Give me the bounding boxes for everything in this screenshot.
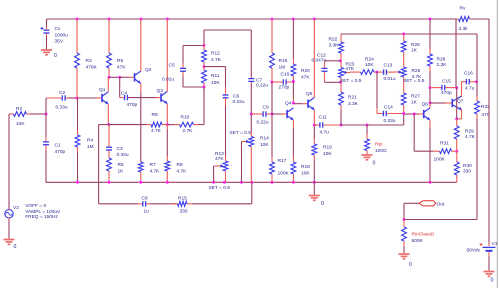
svg-text:47K: 47K <box>346 66 355 72</box>
svg-text:SET = 0.5: SET = 0.5 <box>230 130 252 136</box>
svg-text:SET = 0.5: SET = 0.5 <box>209 185 231 191</box>
svg-text:R31: R31 <box>440 141 449 147</box>
wire bypass jog from node D <box>99 124 109 126</box>
svg-text:2.2K: 2.2K <box>437 62 448 68</box>
wire node S to Q6 base <box>404 113 420 115</box>
svg-text:10K: 10K <box>260 142 269 148</box>
wire node D to R9 <box>109 124 146 126</box>
node node AB (C15 right) <box>455 86 458 89</box>
svg-text:0.33u: 0.33u <box>384 118 396 124</box>
svg-text:R22: R22 <box>329 37 338 43</box>
resistor R2 <box>9 113 14 115</box>
svg-text:C6: C6 <box>233 94 239 100</box>
svg-text:RinClassD: RinClassD <box>412 232 435 238</box>
svg-text:0: 0 <box>54 53 57 59</box>
svg-text:1000u: 1000u <box>55 33 69 39</box>
svg-text:100G: 100G <box>375 148 387 154</box>
wire Q7 collector up <box>461 82 463 97</box>
node node M (C10 right) <box>292 80 295 83</box>
wire Q5 collector up <box>313 19 315 98</box>
wire R2 to node A <box>30 113 46 115</box>
node node Z (Q7 base) <box>429 102 432 105</box>
svg-text:35V: 35V <box>55 39 64 45</box>
transistor Q3 <box>156 97 162 99</box>
resistor R27 <box>403 91 405 93</box>
svg-text:C4: C4 <box>121 91 127 97</box>
svg-text:R17: R17 <box>278 158 287 164</box>
wire Q2 collector up <box>140 19 142 71</box>
svg-text:330: 330 <box>463 169 471 175</box>
svg-text:Rip: Rip <box>375 142 383 148</box>
node node I (R12/R11/C6) <box>203 65 206 68</box>
wire Q3 collector up <box>166 19 168 91</box>
wire C12 top drop <box>324 61 326 66</box>
node node L (C10 left) <box>271 81 274 84</box>
resistor R17 <box>271 174 273 182</box>
polarity + mark of Cv <box>41 27 44 29</box>
svg-text:R6: R6 <box>118 162 124 168</box>
wire node C to C4 node <box>109 76 120 78</box>
node node B (R3 bottom/Q1 base) <box>76 97 79 100</box>
node junction rail-R3 <box>76 18 79 21</box>
svg-text:4.7K: 4.7K <box>151 128 162 134</box>
svg-text:0.01u: 0.01u <box>162 77 174 83</box>
resistor R18 <box>292 174 294 182</box>
node node S (Q6 base) <box>402 112 405 115</box>
wire wiper tail to R24 <box>350 71 361 73</box>
ground 0 below Rip <box>362 154 373 156</box>
svg-text:47K: 47K <box>215 156 224 162</box>
node junction rail-Q5 collector <box>313 18 316 21</box>
capacitor C1 <box>45 137 47 142</box>
resistor Rv <box>459 17 470 22</box>
svg-text:Q4: Q4 <box>285 101 292 107</box>
node node E (C4 branch) <box>118 76 121 79</box>
transistor Q4 <box>282 113 288 115</box>
svg-text:R12: R12 <box>211 51 220 57</box>
svg-text:Q3: Q3 <box>157 88 164 94</box>
node junction bus-R8 <box>166 181 169 184</box>
capacitor C12 <box>324 66 326 69</box>
capacitor C10 <box>272 81 283 83</box>
wire feedback top <box>341 33 477 35</box>
svg-text:10K: 10K <box>301 171 310 177</box>
wire R15 to riser <box>192 203 252 205</box>
wire Q6 emitter down <box>429 120 431 128</box>
resistor R30 <box>456 151 458 162</box>
capacitor C2 <box>46 97 62 99</box>
svg-text:SET = 0.5: SET = 0.5 <box>340 78 362 84</box>
potentiometer R25 <box>403 65 405 67</box>
svg-text:10K: 10K <box>365 62 374 68</box>
resistor Rip <box>366 134 368 139</box>
svg-text:470p: 470p <box>127 102 138 108</box>
svg-text:R21: R21 <box>348 95 357 101</box>
resistor R28 <box>429 49 431 54</box>
capacitor C16 <box>462 81 467 83</box>
node node T (R23 bottom/C12) <box>339 81 342 84</box>
wire C12 top wire <box>325 60 341 62</box>
svg-text:R3: R3 <box>86 58 92 64</box>
wire ground bus <box>46 181 457 183</box>
wire bypass drop (crosses bus) <box>98 125 100 204</box>
node node X (R31 branch) <box>413 113 416 116</box>
wire Q2 emitter down <box>140 84 142 93</box>
wire node X drop <box>413 114 415 151</box>
transistor Q2 <box>129 76 135 78</box>
wire C8 row left <box>99 203 138 205</box>
svg-text:1u: 1u <box>144 209 150 215</box>
wire node K to Q4 base <box>272 113 283 115</box>
resistor R3 <box>76 19 78 53</box>
node node N (Q4 collector) <box>292 102 295 105</box>
svg-text:R9: R9 <box>152 112 158 118</box>
resistor R15 <box>173 203 178 205</box>
wire node E to Q2 base <box>120 76 129 78</box>
wire right edge drop <box>488 19 490 243</box>
transistor Q7 <box>445 102 453 104</box>
svg-text:270p: 270p <box>279 85 290 91</box>
svg-text:2.7K: 2.7K <box>183 128 194 134</box>
resistor R5 <box>108 19 110 53</box>
svg-text:0: 0 <box>14 244 17 250</box>
svg-text:500K: 500K <box>412 238 424 244</box>
resistor R19 <box>313 155 315 160</box>
wire top rail right of Rv <box>471 18 489 20</box>
wire C7 to node J <box>250 84 252 114</box>
capacitor C6 <box>225 92 227 95</box>
svg-text:0.22u: 0.22u <box>233 99 245 105</box>
wire node R to corner <box>367 124 404 126</box>
wire Cv drop from rail corner <box>46 19 48 27</box>
node node K (Q4 base) <box>271 113 274 116</box>
node junction bus-gnd <box>313 181 316 184</box>
wire out stub to tag <box>404 202 419 204</box>
svg-text:470p: 470p <box>55 149 66 155</box>
resistor R24 <box>374 71 377 73</box>
svg-text:C5: C5 <box>169 63 175 69</box>
resistor R20 <box>292 59 294 64</box>
wire node I to C6 column <box>204 66 226 68</box>
wire Q5 emitter down <box>313 110 315 125</box>
svg-text:4.7K: 4.7K <box>211 57 222 63</box>
wire C2 to R3 node <box>69 97 78 99</box>
wire node A up <box>45 98 47 114</box>
wire node F down to R8 <box>166 125 168 130</box>
wire C5 bottom to node H <box>183 86 204 88</box>
transistor Q1 <box>97 97 103 99</box>
svg-text:10K: 10K <box>211 80 220 86</box>
svg-text:R2: R2 <box>16 106 22 112</box>
wire rail drop right <box>455 19 457 88</box>
wire node M down to Q4 collector <box>292 81 294 98</box>
source V2 <box>5 210 13 218</box>
wire Cv to ground <box>46 36 48 49</box>
svg-text:0: 0 <box>491 278 494 284</box>
svg-text:1M: 1M <box>279 65 286 71</box>
node node H (R11 bottom/C5) <box>203 86 206 89</box>
svg-text:Q5: Q5 <box>306 91 313 97</box>
resistor R26 <box>403 34 405 41</box>
wire 456 column mid <box>456 88 458 119</box>
resistor RinClassD <box>403 220 405 228</box>
svg-text:0: 0 <box>373 161 376 167</box>
node junction rail-Q2 collector <box>140 18 143 21</box>
svg-text:R18: R18 <box>301 164 310 170</box>
svg-text:3.3k: 3.3k <box>459 26 469 32</box>
svg-text:C10: C10 <box>281 72 290 78</box>
svg-text:4.7K: 4.7K <box>150 169 161 175</box>
svg-text:0.01u: 0.01u <box>384 76 396 82</box>
svg-text:C13: C13 <box>384 63 393 69</box>
wire C5 top wire <box>183 45 204 47</box>
wire feedback drop <box>476 34 478 82</box>
node node U (R22 bottom/C12 top) <box>339 59 342 62</box>
svg-text:4.7K: 4.7K <box>465 134 476 140</box>
transistor Q6 <box>418 113 424 115</box>
svg-text:R4: R4 <box>87 138 93 144</box>
resistor R11 <box>203 67 205 70</box>
wire V2 to R2 riser <box>8 114 10 210</box>
wire node L down to node K <box>271 82 273 114</box>
svg-text:R5: R5 <box>117 58 123 64</box>
wire node Q to Rip node <box>341 124 367 126</box>
node junction rail-R16 <box>271 18 274 21</box>
wire inner box top <box>204 29 251 31</box>
node junction bus-R14 wiper <box>240 181 243 184</box>
node node AC (Q7 emitter) <box>455 117 458 120</box>
capacitor Cv <box>46 27 48 30</box>
wire top supply rail <box>47 18 457 20</box>
capacitor C4 <box>120 97 125 99</box>
node junction bus-R7 <box>139 181 142 184</box>
node junction bus-R13 wiper <box>212 181 215 184</box>
node node C (Q1 collector/R5) <box>108 76 111 79</box>
svg-text:C3: C3 <box>117 146 123 152</box>
wire C6 to R13 top <box>225 101 227 106</box>
capacitor C11 <box>314 124 320 126</box>
wire C4 branch drop <box>119 77 121 97</box>
node node D (Q1 emitter) <box>108 123 111 126</box>
svg-text:C14: C14 <box>384 105 393 111</box>
svg-text:47K: 47K <box>301 75 310 81</box>
resistor R8 <box>166 171 168 182</box>
svg-text:Q6: Q6 <box>422 102 429 108</box>
ground 0 below RinClassD <box>399 253 410 255</box>
wire Q1 emitter down <box>107 104 109 124</box>
svg-text:10K: 10K <box>323 151 332 157</box>
wire R14 wiper to bus <box>241 142 243 183</box>
node junction bus-R13 <box>223 181 226 184</box>
wire node N to Q5 base <box>293 103 302 105</box>
node junction bus-Q6 emitter <box>429 181 432 184</box>
svg-text:Cv: Cv <box>55 26 61 32</box>
wire out riser <box>403 203 405 219</box>
svg-text:4.7K: 4.7K <box>177 169 188 175</box>
wire node K down to R17 <box>271 114 273 157</box>
svg-text:R15: R15 <box>178 196 187 202</box>
potentiometer R13 <box>225 171 227 182</box>
svg-text:0.22u: 0.22u <box>257 120 269 126</box>
wire C7 column upper <box>250 30 252 77</box>
wire C14 left riser <box>376 72 378 108</box>
node junction bus-R17 <box>271 181 274 184</box>
svg-text:C15: C15 <box>442 79 451 85</box>
wire Q1 collector up <box>107 77 109 92</box>
node node J (C7/C9/R14) <box>250 113 253 116</box>
node junction bus-R4 <box>76 181 79 184</box>
wire battery to ground <box>488 252 490 256</box>
wire Q7 emitter jog <box>457 118 462 120</box>
svg-text:FREQ = 150Hz: FREQ = 150Hz <box>25 214 58 220</box>
svg-text:VOFF = 0: VOFF = 0 <box>25 203 46 209</box>
node node AD (C16 right) <box>475 80 478 83</box>
wire Q7 collector top to C16 <box>462 81 463 83</box>
source V1 battery <box>483 246 496 248</box>
svg-text:R27: R27 <box>411 94 420 100</box>
svg-text:Q2: Q2 <box>145 67 152 73</box>
capacitor C13 <box>377 71 384 73</box>
svg-text:VAMPL = 100uV: VAMPL = 100uV <box>25 209 61 215</box>
svg-text:R29: R29 <box>465 129 474 135</box>
node junction bus-R6 <box>108 181 111 184</box>
wire C6 column drop <box>225 67 227 87</box>
wire out row <box>404 219 477 221</box>
wire riser to bus <box>251 182 253 204</box>
svg-text:0: 0 <box>409 262 412 268</box>
svg-text:Q1: Q1 <box>99 87 106 93</box>
svg-text:R26: R26 <box>411 42 420 48</box>
svg-text:330: 330 <box>180 209 188 215</box>
node node Y (R29/R30/R31) <box>455 150 458 153</box>
svg-text:Out: Out <box>437 202 445 208</box>
wire Q4 emitter down <box>292 120 294 128</box>
svg-text:R25: R25 <box>412 68 421 74</box>
svg-text:C1: C1 <box>55 143 61 149</box>
svg-text:R16: R16 <box>279 58 288 64</box>
wire R13 wiper to bus <box>213 166 215 182</box>
svg-text:0.33u: 0.33u <box>56 105 68 111</box>
wire node B to Q1 base <box>77 97 97 99</box>
wire node AA to node Z <box>429 88 431 103</box>
svg-text:0.22u: 0.22u <box>256 82 268 88</box>
svg-text:R19: R19 <box>323 145 332 151</box>
svg-text:C9: C9 <box>263 105 269 111</box>
capacitor C14 <box>377 113 383 115</box>
wire node Z to Q7 base <box>430 102 446 104</box>
capacitor C8 <box>138 203 143 205</box>
svg-text:470K: 470K <box>86 65 98 71</box>
svg-text:C8: C8 <box>142 196 148 202</box>
node junction bus-R18 <box>292 181 295 184</box>
wire C4 to Q3 base <box>127 97 155 99</box>
svg-text:R7: R7 <box>150 162 156 168</box>
svg-text:R8: R8 <box>177 162 183 168</box>
svg-text:C11: C11 <box>319 115 328 121</box>
svg-text:Rv: Rv <box>460 6 466 12</box>
node node AA (C15 left) <box>429 86 432 89</box>
node node A (R2/C2/C1) <box>45 113 48 116</box>
wire Q6 collector up <box>429 103 431 108</box>
wire V2 to ground <box>8 219 10 238</box>
svg-text:R14: R14 <box>260 136 269 142</box>
capacitor C7 <box>250 77 252 79</box>
svg-text:R28: R28 <box>437 57 446 63</box>
node junction rail-Q3 collector <box>166 18 169 21</box>
resistor R31 <box>433 150 440 152</box>
node junction bus-R14/C8 <box>250 181 253 184</box>
resistor R4 <box>77 130 79 135</box>
svg-text:100K: 100K <box>278 171 290 177</box>
svg-text:1K: 1K <box>118 169 125 175</box>
potentiometer R23 <box>340 61 342 68</box>
resistor R7 <box>140 172 142 182</box>
node junction rail-R28 <box>429 18 432 21</box>
svg-text:R20: R20 <box>301 68 310 74</box>
svg-text:47K: 47K <box>117 65 126 71</box>
svg-text:R30: R30 <box>463 163 472 169</box>
wire Q7 emitter down <box>461 109 463 119</box>
svg-text:50Vdc: 50Vdc <box>467 248 481 254</box>
capacitor C5 <box>182 63 184 68</box>
capacitor C15 <box>430 87 442 89</box>
svg-text:C16: C16 <box>464 71 473 77</box>
svg-text:R24: R24 <box>365 57 374 63</box>
resistor R22 <box>340 34 342 42</box>
wire Q3 emitter down <box>166 104 168 125</box>
wire C12 bottom drop <box>324 75 326 83</box>
wire bus to ground stub <box>313 182 315 194</box>
potentiometer R14 <box>250 132 252 137</box>
svg-text:10K: 10K <box>16 121 25 127</box>
resistor R9 <box>146 124 151 126</box>
resistor R32 <box>476 96 478 101</box>
resistor R16 <box>271 19 273 53</box>
node node R (Rip) <box>366 124 369 127</box>
resistor R29 <box>456 119 458 126</box>
svg-text:3.3K: 3.3K <box>329 43 340 49</box>
svg-text:Q7: Q7 <box>457 99 464 105</box>
svg-text:C2: C2 <box>59 90 65 96</box>
node junction rail-R20 <box>292 18 295 21</box>
svg-text:4.7u: 4.7u <box>320 130 330 136</box>
svg-text:0.047u: 0.047u <box>312 57 327 63</box>
svg-text:1K: 1K <box>411 47 418 53</box>
ground 0 below V1 <box>484 271 495 273</box>
node node F (Q3 emitter) <box>166 123 169 126</box>
node node P (Q5 emitter/C11) <box>313 124 316 127</box>
svg-text:R10: R10 <box>181 115 190 121</box>
svg-text:4.7u: 4.7u <box>465 86 475 92</box>
capacitor C9 <box>251 113 263 115</box>
resistor R21 <box>340 82 342 92</box>
wire R19 to bus <box>313 160 315 182</box>
offpage connector Out <box>419 201 436 206</box>
wire node P down to R19 <box>313 125 315 139</box>
wire corner up to node S <box>403 114 405 126</box>
ground 0 below Cv <box>41 49 52 51</box>
svg-text:1K: 1K <box>411 100 418 106</box>
node node V (R26 top) <box>402 33 405 36</box>
svg-text:R11: R11 <box>211 73 220 79</box>
ground 0 on bus <box>309 195 320 197</box>
svg-text:1M: 1M <box>87 144 94 150</box>
node node OUT <box>403 218 406 221</box>
resistor R12 <box>203 46 205 51</box>
resistor R10 <box>175 124 180 126</box>
svg-text:100K: 100K <box>434 157 446 163</box>
transistor Q5 <box>303 103 309 105</box>
